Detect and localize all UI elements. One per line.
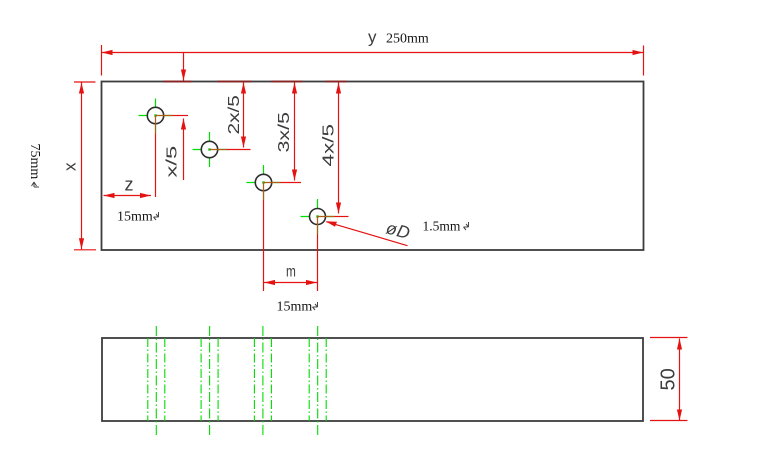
hole H1 center dot (154, 114, 156, 116)
dimension 2x/5 top edge extension (218, 81, 252, 83)
hole H3 crosshair (247, 165, 281, 200)
side view hole 4 right edge line (325, 338, 327, 421)
svg-text:250mm: 250mm (386, 32, 429, 47)
label 15mm bottom return mark (313, 302, 318, 310)
hole H4 crosshair (301, 199, 335, 234)
side view hole 3 left edge line (253, 338, 255, 421)
label 15mm left return mark (154, 212, 159, 220)
hole H3 extension right overlap (264, 182, 281, 184)
hole H1 circle (147, 107, 163, 123)
hole H1 extension down overlap (155, 116, 157, 134)
dimension x extension tick top (74, 81, 96, 83)
hole H2 extension right overlap (210, 149, 227, 151)
side view hole 2 left edge line (200, 338, 202, 421)
svg-text:75mm: 75mm (27, 144, 42, 180)
svg-text:15mm: 15mm (117, 210, 153, 225)
side view hole 2 right edge line (217, 338, 219, 421)
svg-text:3x/5: 3x/5 (275, 112, 293, 152)
hole H4 center dot (316, 215, 318, 217)
dimension y extension line right (643, 46, 645, 76)
dimension x extension tick bottom (74, 249, 96, 251)
dimension x arrow top (79, 83, 84, 94)
plate outline side view (102, 338, 643, 421)
plate outline top view (102, 82, 644, 251)
dimension x/5 arrow down at plate edge (181, 70, 186, 81)
hole H1 crosshair (139, 99, 173, 134)
dimension 50 extension tick top (650, 337, 688, 339)
side view hole 3 right edge line (270, 338, 272, 421)
hole H4 extension down red (317, 234, 319, 291)
dimension x/5 arrow up at hole line (181, 119, 186, 130)
hole H1 extension right overlap (156, 115, 173, 117)
dimension 4x/5 line (338, 83, 340, 214)
svg-text:y: y (368, 28, 377, 47)
hole H3 extension down overlap (263, 183, 265, 201)
svg-text:x/5: x/5 (164, 146, 180, 178)
dimension m arrow right (306, 280, 317, 285)
hole H4 extension right red (335, 216, 349, 218)
side view hole 1 right edge line (164, 338, 166, 421)
dimension 2x/5 arrow bottom (241, 137, 246, 148)
dimension 50 line (679, 339, 681, 421)
dimension z line (104, 195, 152, 197)
dimension x/5 upper segment (183, 53, 185, 81)
dimension y line (102, 52, 644, 54)
dimension x/5 lower segment (183, 119, 185, 181)
dimension 2x/5 line (243, 83, 245, 148)
hole H2 extension right red (227, 149, 251, 151)
dimension y extension line left (101, 45, 103, 76)
side view hole 1 centerline (155, 326, 157, 435)
side view hole 4 centerline (317, 326, 319, 435)
dimension x/5 top edge extension (164, 81, 192, 83)
svg-text:2x/5: 2x/5 (225, 95, 243, 134)
dimension 2x/5 arrow top (241, 83, 246, 94)
hole H3 extension down red (263, 200, 265, 291)
hole H2 center dot (208, 148, 210, 150)
dimension 50 arrow bottom (677, 410, 682, 421)
svg-text:z: z (125, 175, 134, 195)
dimension m arrow left (264, 280, 275, 285)
svg-text:x: x (61, 162, 80, 171)
dimension 4x/5 arrow top (336, 83, 341, 94)
hole H4 extension down overlap (317, 217, 319, 235)
hole H3 center dot (262, 181, 264, 183)
svg-text:1.5mm: 1.5mm (423, 219, 461, 234)
side view hole 4 left edge line (308, 338, 310, 421)
dimension 3x/5 arrow bottom (292, 170, 297, 181)
side view hole 1 left edge line (147, 338, 149, 421)
svg-text:øD: øD (384, 218, 413, 244)
dimension 3x/5 arrow top (292, 83, 297, 94)
dimension z arrow left (104, 193, 115, 198)
hole H1 extension right red (173, 115, 189, 117)
label 1.5mm return mark (464, 222, 469, 230)
leader for hole diameter (327, 222, 408, 246)
dimension 4x/5 top edge extension (326, 81, 347, 83)
side view hole 2 centerline (209, 326, 211, 435)
dimension 3x/5 line (294, 83, 296, 181)
hole H4 extension right overlap (318, 216, 335, 218)
hole H1 extension down red (155, 134, 157, 198)
dimension x line (81, 83, 83, 250)
dimension x arrow bottom (79, 238, 84, 249)
dimension 50 arrow top (677, 339, 682, 350)
dimension y arrow right (633, 50, 644, 55)
dimension 4x/5 arrow bottom (336, 203, 341, 214)
dimension z arrow right (140, 193, 151, 198)
hole H4 circle (310, 209, 326, 225)
leader arrowhead (326, 221, 338, 227)
hole H2 circle (201, 141, 217, 157)
svg-text:50: 50 (657, 368, 679, 390)
dimension m line (264, 282, 317, 284)
hole H2 crosshair (193, 132, 227, 167)
dimension 50 extension tick bottom (650, 420, 688, 422)
svg-text:4x/5: 4x/5 (320, 124, 338, 167)
label 75mm return mark (32, 182, 40, 187)
svg-text:15mm: 15mm (277, 300, 313, 315)
hole H3 extension right red (281, 182, 302, 184)
hole H3 circle (255, 174, 271, 190)
dimension y arrow left (102, 50, 113, 55)
side view hole 3 centerline (262, 326, 264, 435)
svg-text:m: m (286, 262, 296, 280)
dimension 3x/5 top edge extension (272, 81, 303, 83)
